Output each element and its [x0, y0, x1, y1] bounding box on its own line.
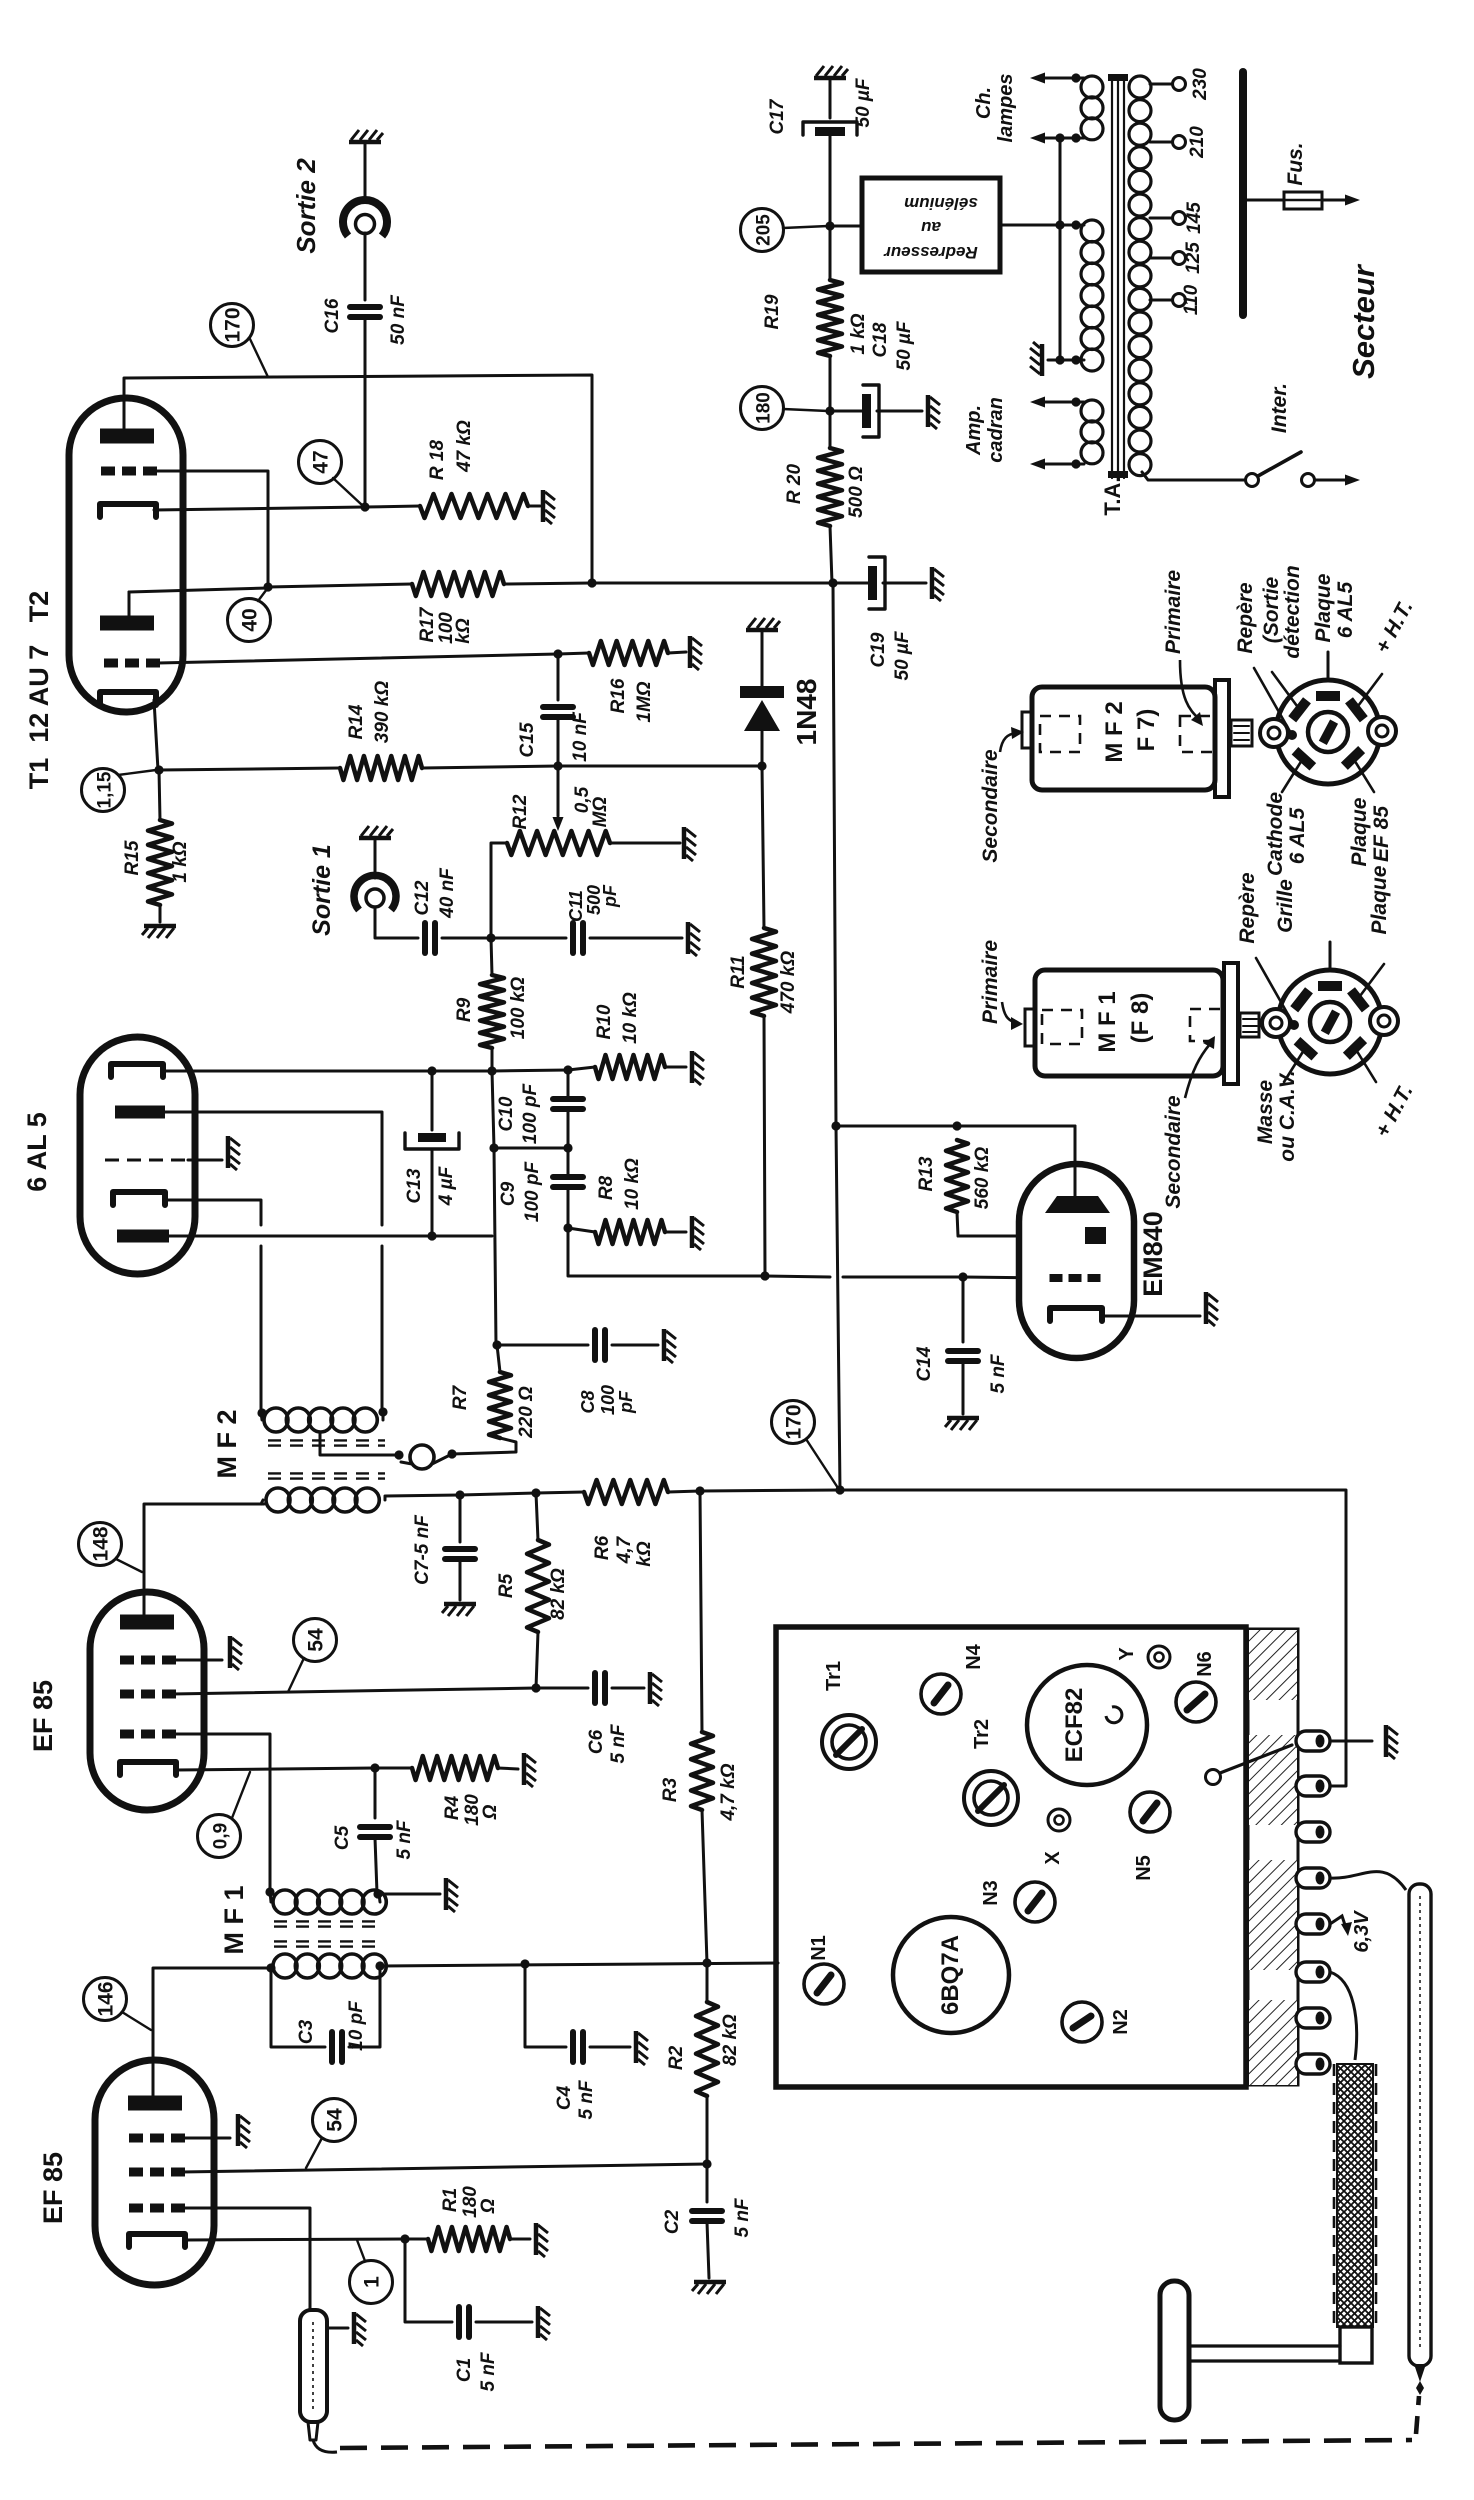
wire R17 to rail junction	[504, 583, 592, 584]
diode 1N48 cathode bar	[740, 686, 784, 698]
ground C19	[932, 567, 944, 601]
tube 6BQ7A circle	[893, 1917, 1009, 2033]
svg-text:100: 100	[598, 1385, 618, 1415]
MF1 socket lead repere	[1256, 958, 1294, 1025]
6AL5 diode2 cathode	[113, 1192, 165, 1205]
arrow Secondaire MF2	[1000, 733, 1016, 752]
MF2 socket lead sortie detection	[1272, 672, 1297, 706]
wire cathode to R1	[185, 2240, 187, 2247]
svg-text:100 pF: 100 pF	[522, 1161, 543, 1223]
wire R2 bottom to C2	[706, 2164, 709, 2202]
junction dot 180	[825, 406, 834, 415]
MF2 can body	[1032, 687, 1215, 790]
svg-text:pF: pF	[600, 884, 620, 908]
ground above Sortie 2	[349, 130, 383, 142]
MF1 core	[274, 1920, 378, 1922]
svg-text:C5: C5	[332, 1825, 353, 1850]
svg-text:6 AL5: 6 AL5	[1286, 807, 1309, 864]
wire C10 leads	[567, 1070, 570, 1099]
point X	[1048, 1809, 1070, 1831]
MF1 dashed box right	[1190, 1009, 1224, 1041]
node A junction dot	[263, 582, 272, 591]
wire ground to jack 1	[374, 840, 377, 878]
wire AGC to rail gap	[765, 1276, 830, 1277]
wire bar to fuse	[1243, 199, 1284, 202]
wire C7 to ground	[459, 1560, 462, 1600]
junction dot HT tap	[1071, 220, 1080, 229]
T2 cathode	[100, 504, 156, 517]
svg-text:M F 2: M F 2	[1101, 701, 1128, 762]
wire diode1 anode to MF2 lower	[381, 1246, 384, 1412]
trimmer Tr2	[964, 1771, 1018, 1825]
ground chassis	[1386, 1725, 1398, 1759]
wire wiper node to diode node	[558, 765, 762, 768]
junction dot C9 top	[563, 1143, 572, 1152]
resistor R5	[527, 1540, 549, 1632]
wire C1 to ground	[476, 2321, 532, 2324]
socket N6	[1176, 1682, 1216, 1722]
socket N2	[1062, 2002, 1102, 2042]
ground C1	[538, 2306, 550, 2340]
svg-text:50 µF: 50 µF	[853, 77, 874, 127]
wire EM840 plate top	[1074, 1126, 1077, 1200]
label R12 value	[572, 786, 611, 827]
svg-text:205: 205	[754, 214, 775, 246]
svg-text:6,3V: 6,3V	[1351, 1910, 1373, 1953]
leader 47	[333, 478, 362, 505]
svg-text:M F 1: M F 1	[1094, 991, 1121, 1052]
svg-text:C9: C9	[498, 1181, 519, 1206]
wire C6 to ground	[612, 1687, 644, 1690]
MF2 trimmer tab	[1022, 712, 1032, 748]
wire R18 to ground	[528, 505, 540, 508]
svg-text:50 µF: 50 µF	[892, 630, 913, 680]
svg-text:R12: R12	[510, 794, 531, 829]
switch pivot circle	[1206, 1770, 1221, 1785]
wire node A to R17	[268, 584, 412, 587]
MF1 can flange	[1224, 963, 1238, 1084]
wire C5 to MF1	[375, 1838, 377, 1893]
capacitor C18 electrolytic	[862, 394, 871, 428]
ground R16	[690, 636, 702, 670]
MF1 can stub	[1240, 1013, 1259, 1037]
MF1 secondary winding	[273, 1954, 297, 1978]
junction dot lamp link	[1055, 133, 1064, 142]
wire g1 to antenna	[181, 2208, 310, 2312]
svg-text:MΩ: MΩ	[590, 797, 611, 828]
6AL5 shield dashed	[105, 1159, 188, 1162]
svg-text:X: X	[1042, 1851, 1064, 1865]
MF2 socket	[1260, 680, 1396, 784]
ground coax	[354, 2312, 366, 2346]
leader 1	[357, 2240, 365, 2261]
node 1,15 circle	[82, 769, 125, 812]
ground C6	[650, 1672, 662, 1706]
wire fuse to mains	[1322, 199, 1346, 202]
wire jack1 to C12	[375, 907, 418, 938]
wire lamp tap bottom	[1044, 137, 1084, 140]
wire g2 to R2 bottom	[181, 2164, 707, 2172]
junction dot cathode EF85-1	[400, 2234, 409, 2243]
svg-text:R 20: R 20	[784, 464, 805, 505]
dashed alignment line	[340, 2440, 1412, 2448]
wiper arrowhead	[553, 817, 564, 831]
junction dot grid T1 node	[553, 649, 562, 658]
svg-text:T1 12 AU 7 T2: T1 12 AU 7 T2	[24, 591, 54, 790]
wire wiper arrow	[557, 766, 560, 816]
wire node down to C15	[557, 654, 560, 700]
leader 205	[783, 226, 828, 228]
svg-text:Plaque: Plaque	[1368, 865, 1391, 934]
resistor R17	[412, 572, 504, 596]
capacitor C2	[692, 2208, 722, 2214]
capacitor C7 wire	[459, 1495, 462, 1542]
wire R8 left	[568, 1228, 595, 1232]
wire R9 to diode line	[491, 1048, 494, 1070]
svg-text:Redresseur: Redresseur	[883, 243, 978, 262]
svg-text:5 nF: 5 nF	[732, 2197, 753, 2237]
svg-text:560 kΩ: 560 kΩ	[972, 1147, 993, 1210]
svg-text:R7: R7	[450, 1384, 471, 1410]
junction dot R8 node	[563, 1223, 572, 1232]
resistor R8	[595, 1220, 665, 1244]
wire R14 to C15 node	[422, 766, 558, 768]
junction dot C13 bottom	[427, 1231, 436, 1240]
switch Inter contact 2	[1302, 474, 1315, 487]
wire AGC corner	[568, 1228, 765, 1276]
EF85-2 cathode	[120, 1762, 176, 1775]
svg-text:170: 170	[783, 1404, 806, 1439]
svg-text:R13: R13	[916, 1156, 937, 1191]
ground R4	[524, 1753, 536, 1787]
junction dot R11 bottom	[760, 1271, 769, 1280]
wire node to R16	[558, 653, 589, 654]
svg-text:sélénium: sélénium	[904, 194, 978, 213]
arrow lamp top	[1030, 73, 1045, 84]
ground C7	[442, 1604, 476, 1616]
wire node to rectifier box	[830, 225, 862, 228]
node 180 circle	[741, 387, 784, 430]
svg-text:Secondaire: Secondaire	[1162, 1095, 1185, 1209]
wire R6 to junction	[668, 1491, 700, 1492]
svg-text:N3: N3	[980, 1880, 1002, 1906]
svg-text:F 7): F 7)	[1133, 709, 1160, 752]
svg-text:230: 230	[1190, 68, 1211, 101]
svg-text:6 AL5: 6 AL5	[1334, 581, 1357, 638]
svg-text:210: 210	[1187, 126, 1208, 159]
arrow mains switch	[1345, 475, 1360, 486]
wire link to R7	[452, 1438, 516, 1454]
wire junction to 170 node	[700, 1490, 840, 1491]
svg-text:Ω: Ω	[478, 2198, 499, 2214]
leader 146	[122, 2012, 151, 2030]
wire cadran tap top	[1044, 401, 1084, 404]
capacitor C15	[543, 704, 573, 710]
svg-text:kΩ: kΩ	[634, 1541, 655, 1567]
ground R12	[684, 827, 696, 861]
wire diode2 cathode to MF2 lower	[260, 1246, 263, 1412]
wire HT rail down	[833, 583, 836, 1126]
svg-text:220 Ω: 220 Ω	[516, 1386, 537, 1439]
MF2 socket lead cathode	[1282, 760, 1302, 792]
node 54 circle upper	[294, 1619, 337, 1662]
wire detector node to R9	[491, 938, 492, 975]
arrow lamp bottom	[1030, 133, 1045, 144]
ground above C17	[814, 66, 848, 78]
wire R5 top	[536, 1493, 538, 1540]
wire diode1 anode to MF2	[165, 1112, 382, 1225]
svg-text:C6: C6	[586, 1729, 607, 1754]
resistor R14	[340, 756, 422, 780]
svg-text:R1: R1	[440, 2188, 461, 2212]
svg-text:5 nF: 5 nF	[394, 1819, 415, 1859]
capacitor C12	[422, 923, 428, 953]
wire R4 left	[375, 1767, 412, 1770]
EM840 display target	[1045, 1196, 1110, 1213]
svg-text:R10: R10	[594, 1004, 615, 1039]
wire R10 to ground	[665, 1066, 686, 1069]
svg-text:10 pF: 10 pF	[346, 2000, 367, 2051]
wire R13 bottom to EM840 target electrode	[957, 1212, 1083, 1236]
wire C14 to ground	[962, 1362, 965, 1414]
svg-text:40 nF: 40 nF	[437, 867, 458, 919]
node 205 circle	[741, 209, 784, 252]
svg-text:R19: R19	[762, 294, 783, 329]
svg-text:10 kΩ: 10 kΩ	[622, 1158, 643, 1210]
wire g3 to ground	[181, 2137, 230, 2140]
svg-text:Tr2: Tr2	[971, 1719, 993, 1749]
svg-text:Inter.: Inter.	[1268, 383, 1291, 433]
junction dot MF1 primary right	[373, 1889, 382, 1898]
svg-text:(F 8): (F 8)	[1127, 993, 1154, 1044]
wire R5 bottom	[536, 1632, 538, 1688]
svg-text:C10: C10	[496, 1096, 517, 1131]
svg-text:47: 47	[310, 450, 333, 473]
svg-text:Ω: Ω	[480, 1804, 501, 1820]
wire coax shield to ground	[327, 2327, 348, 2330]
wire C11 to ground	[590, 937, 682, 940]
rectifier box Redresseur au selenium	[862, 178, 1000, 272]
braided cable	[1334, 2064, 1376, 2327]
wire node to R14	[159, 768, 340, 770]
tuning tool shaft	[1188, 2344, 1340, 2347]
svg-text:C1: C1	[454, 2358, 475, 2382]
wire C9 row to C10 C9	[494, 1147, 568, 1150]
svg-text:ECF82: ECF82	[1061, 1688, 1088, 1763]
tuning tool T handle	[1160, 2281, 1189, 2420]
junction dot C4 node	[520, 1959, 529, 1968]
ground R18	[543, 490, 555, 524]
svg-text:Fus.: Fus.	[1284, 142, 1307, 185]
capacitor C1	[456, 2307, 462, 2337]
junction dot R9 bottom	[487, 1066, 496, 1075]
MF1 can body	[1035, 970, 1223, 1076]
node 1 circle	[350, 2261, 393, 2304]
svg-text:EF 85: EF 85	[38, 2152, 68, 2224]
resistor R15	[148, 820, 172, 905]
svg-text:kΩ: kΩ	[453, 618, 474, 644]
wire T1 anode to node A	[129, 588, 268, 592]
wire node 180 to R20	[829, 411, 832, 448]
wire R12 left to detector rail	[491, 843, 507, 938]
svg-text:4 µF: 4 µF	[436, 1165, 457, 1206]
svg-text:M F 2: M F 2	[212, 1409, 242, 1478]
ground above Sortie 1	[359, 826, 393, 838]
MF1 socket lead grille	[1329, 942, 1332, 970]
primary winding	[1129, 76, 1151, 98]
svg-text:Plaque: Plaque	[1348, 797, 1371, 866]
terminal pin 7	[1296, 2008, 1330, 2028]
capacitor C14	[948, 1348, 978, 1354]
MF2 secondary winding	[266, 1488, 290, 1512]
wire diode2 cathode to MF2	[165, 1200, 261, 1225]
svg-text:R17: R17	[417, 606, 438, 642]
wire cathode node to C5	[374, 1768, 377, 1818]
EF85-2 anode	[120, 1615, 174, 1630]
point Y	[1148, 1646, 1170, 1668]
mains selector bar	[1239, 72, 1247, 315]
svg-text:C13: C13	[404, 1168, 425, 1203]
node 170 circle lower	[772, 1401, 815, 1444]
ground 6AL5 shield	[228, 1136, 240, 1170]
leader 180	[783, 409, 828, 411]
junction dot MF1 primary left	[265, 1887, 274, 1896]
wire diode line to C10	[492, 1070, 568, 1071]
ground MF1 primary	[446, 1878, 458, 1912]
EF85-2 grid2	[120, 1690, 134, 1699]
svg-text:Repère: Repère	[1236, 872, 1259, 944]
node 0,9 circle	[198, 1815, 241, 1858]
capacitor C4	[570, 2032, 576, 2062]
svg-text:R15: R15	[122, 840, 143, 875]
tube ECF82 circle	[1027, 1665, 1147, 1785]
svg-text:1: 1	[361, 2276, 384, 2288]
EM840 ray control electrode	[1085, 1227, 1106, 1244]
wire detector node to C11	[491, 937, 566, 940]
wire C16 to cathode T2 node	[364, 318, 367, 505]
svg-text:500 Ω: 500 Ω	[846, 466, 867, 518]
resistor R18	[420, 494, 528, 518]
svg-text:C15: C15	[517, 722, 538, 757]
svg-text:Primaire: Primaire	[979, 940, 1002, 1024]
label C11	[566, 884, 620, 922]
junction dot link left	[394, 1450, 403, 1459]
socket N1	[804, 1964, 844, 2004]
svg-text:au: au	[920, 218, 940, 237]
svg-text:0,9: 0,9	[211, 1823, 232, 1849]
wire MF2 secondary left to EF85 anode	[144, 1504, 264, 1598]
T2 anode	[100, 429, 154, 444]
T1 cathode	[100, 692, 156, 705]
resistor R1	[428, 2227, 510, 2251]
wire T1 grid to C15 node	[158, 654, 558, 663]
junction dot R3 top	[695, 1486, 704, 1495]
MF2 socket lead plaqueEF85	[1353, 758, 1374, 792]
wire T2 cathode to node 47	[154, 507, 365, 510]
wire C2 to ground	[707, 2222, 709, 2278]
wire R2 bottom lead	[706, 2096, 709, 2164]
wire AGC after rail	[843, 1276, 963, 1279]
resistor R19	[818, 280, 842, 356]
6AL5 diode1 cathode	[111, 1064, 163, 1077]
tap 230	[1150, 83, 1172, 86]
winding Amp. cadran	[1081, 400, 1103, 422]
svg-text:1MΩ: 1MΩ	[634, 681, 655, 722]
EM840 cathode	[1050, 1308, 1102, 1321]
transformer core	[1108, 74, 1128, 478]
svg-text:Secteur: Secteur	[1346, 263, 1381, 379]
ground EF85-1 g3	[238, 2114, 250, 2148]
svg-text:R9: R9	[454, 997, 475, 1022]
svg-text:EF 85: EF 85	[28, 1680, 58, 1752]
svg-text:10 nF: 10 nF	[570, 711, 591, 762]
capacitor C19 electrolytic	[868, 566, 877, 600]
wire primary bottom to switch	[1142, 472, 1245, 480]
svg-text:50 nF: 50 nF	[388, 294, 409, 345]
svg-text:Grille: Grille	[1274, 879, 1297, 933]
wire ground to C17	[829, 80, 832, 118]
EF85-1 grid1	[129, 2204, 143, 2213]
MF2 socket lead plaque6AL5	[1327, 652, 1330, 680]
capacitor C3 bridge right	[349, 1966, 380, 2047]
wire R12 right to ground	[610, 842, 680, 845]
leader 54 upper	[288, 1658, 304, 1692]
wire shield to ground	[188, 1159, 222, 1162]
svg-text:47 kΩ: 47 kΩ	[454, 420, 475, 473]
node 146 circle	[84, 1978, 127, 2021]
ground R15	[142, 926, 176, 938]
svg-text:390 kΩ: 390 kΩ	[372, 681, 393, 744]
svg-text:M F 1: M F 1	[219, 1885, 249, 1954]
junction dot R7 C8	[492, 1340, 501, 1349]
svg-text:5 nF: 5 nF	[576, 2079, 597, 2119]
ground EM840	[1206, 1292, 1218, 1326]
svg-text:Cathode: Cathode	[1264, 792, 1287, 876]
junction dot R13 top	[952, 1121, 961, 1130]
socket N5	[1130, 1792, 1170, 1832]
wire C9 leads	[567, 1148, 570, 1177]
wire cathode to R4 node	[176, 1770, 178, 1775]
svg-text:1 kΩ: 1 kΩ	[170, 841, 191, 882]
potentiometer R12	[507, 831, 610, 855]
output jack Sortie 2	[343, 200, 387, 236]
wire T2 grid to node A	[151, 471, 268, 586]
svg-text:54: 54	[305, 1628, 328, 1652]
svg-text:ou C.A.V.: ou C.A.V.	[1276, 1070, 1299, 1161]
tap 110	[1150, 299, 1172, 302]
arrow cadran top	[1030, 397, 1045, 408]
MF2 socket lead repere	[1254, 668, 1292, 735]
svg-text:54: 54	[324, 2108, 347, 2132]
MF1 socket lead +HT	[1355, 1048, 1376, 1082]
node 40 circle	[228, 599, 271, 642]
rod tip	[1414, 2364, 1426, 2382]
svg-text:R16: R16	[608, 678, 629, 713]
junction dot R2 bottom	[702, 2159, 711, 2168]
MF1 socket	[1262, 970, 1398, 1074]
label R17	[417, 606, 474, 644]
wire B+ line	[460, 1493, 536, 1495]
wire C17 to node 205	[829, 136, 832, 280]
capacitor C13 electrolytic	[418, 1133, 446, 1142]
resistor R11	[752, 928, 776, 1016]
svg-text:1N48: 1N48	[791, 679, 822, 746]
leader 54 lower	[306, 2138, 322, 2168]
junction dot C9 row	[489, 1143, 498, 1152]
junction dot cathode EF85-2	[370, 1763, 379, 1772]
wire pin4 to rod	[1330, 1872, 1406, 1890]
trimmer Tr1	[822, 1715, 876, 1769]
